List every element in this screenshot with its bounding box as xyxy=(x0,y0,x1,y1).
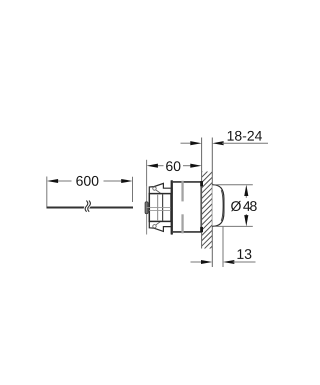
dimension 60 extension line left xyxy=(146,160,148,186)
diameter 48 arrow up xyxy=(244,185,248,196)
wall left face line xyxy=(201,138,203,249)
cylinder slot lower xyxy=(181,214,183,233)
flange plate xyxy=(171,180,173,234)
label 13 xyxy=(237,249,251,259)
clamp left edge / 60 extension continuation xyxy=(146,186,148,235)
label 600 xyxy=(76,176,98,186)
diameter 48 dimension line lower segment xyxy=(245,214,247,218)
dimension 60 line left segment xyxy=(156,165,164,167)
hose break mark white casing xyxy=(85,201,90,212)
dimension 13 tail left xyxy=(191,261,203,263)
cylinder wall-end nub bottom xyxy=(200,227,203,232)
dimension 600 line right segment xyxy=(104,180,124,182)
clamp upper arm xyxy=(149,183,172,193)
push button dome xyxy=(212,185,224,227)
dimension 600 arrow left xyxy=(47,179,58,183)
cylinder slot upper xyxy=(181,181,183,202)
clamp lower arm pivot circle xyxy=(153,225,156,228)
label 60 xyxy=(166,161,180,171)
clamp body xyxy=(149,194,171,222)
dimension 18-24 arrow left xyxy=(190,141,201,145)
dimension 18-24 tail right xyxy=(222,142,268,144)
push button dome inner arc xyxy=(221,190,223,221)
diameter 48 dimension line upper segment xyxy=(245,194,247,198)
dimension 13 tail right xyxy=(233,261,256,263)
clamp lower arm link line xyxy=(156,222,161,225)
dimension 600 arrow right xyxy=(121,179,132,183)
wall right face line xyxy=(211,138,213,268)
cylinder wall-end nub top xyxy=(200,181,203,186)
clamp upper arm link line xyxy=(156,190,161,193)
wall hatching xyxy=(202,161,213,256)
dimension 13 arrow right xyxy=(223,260,234,264)
clamp upper arm pivot circle xyxy=(153,187,156,190)
dimension 600 line left segment xyxy=(57,180,72,182)
dimension 600 extension line left xyxy=(46,177,48,209)
button apex extension line xyxy=(222,226,224,267)
cylinder body bottom edge xyxy=(173,231,202,233)
dimension 60 arrow left xyxy=(147,164,158,168)
diameter 48 extension line bottom xyxy=(214,225,253,227)
cylinder wall-end flange xyxy=(200,181,202,232)
hose break mark xyxy=(85,201,90,212)
diameter 48 extension line top xyxy=(214,184,253,186)
clamp body inner line gray xyxy=(157,194,159,221)
clamp body centre line upper xyxy=(147,206,171,208)
dimension 60 arrow right xyxy=(190,164,201,168)
dimension 600 extension line right xyxy=(132,177,134,202)
clamp body centre line lower xyxy=(149,209,171,211)
clamp lower arm xyxy=(149,221,172,231)
clamp body inner line dark xyxy=(162,194,164,221)
hose line 600 mm xyxy=(47,207,133,209)
diameter 48 arrow down xyxy=(244,215,248,226)
cylinder body top edge xyxy=(173,181,202,183)
label diameter 48 xyxy=(231,201,257,211)
dimension 18-24 tail left xyxy=(181,142,193,144)
dimension 13 arrow left xyxy=(201,260,212,264)
label 18-24 xyxy=(228,131,262,141)
dimension 18-24 arrow right xyxy=(212,141,223,145)
dimension 60 line right segment xyxy=(183,165,193,167)
hose nipple xyxy=(145,202,148,214)
